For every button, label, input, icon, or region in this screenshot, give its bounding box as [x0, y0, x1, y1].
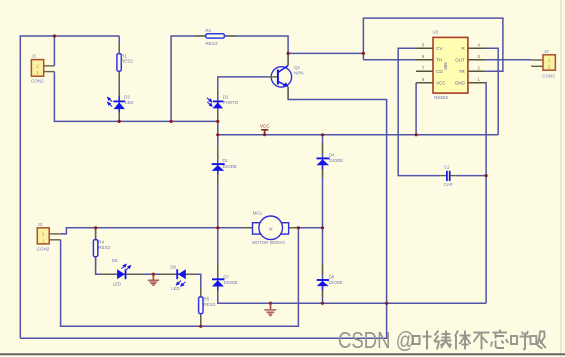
wire: VCC rail y=134.8 [218, 134, 498, 136]
svg-text:RES2: RES2 [121, 59, 133, 64]
LED D5 [101, 258, 142, 287]
wire: VCC pin riser [415, 83, 417, 135]
svg-text:D1: D1 [222, 158, 228, 163]
wire: collector to TH vertical y=53.4 [288, 52, 363, 54]
junction (54.4,36) [53, 34, 56, 37]
ground GND1 [148, 273, 159, 286]
wire: TH-TR top loop [363, 18, 503, 71]
svg-text:Q1: Q1 [294, 65, 300, 70]
svg-text:RES2: RES2 [206, 41, 218, 46]
diode D7 [212, 262, 238, 297]
svg-text:CON2: CON2 [31, 79, 44, 84]
svg-text:DIODE: DIODE [224, 280, 238, 285]
junction (95.6,227.8) [94, 226, 97, 229]
watermark hanzi 叶 [413, 331, 432, 350]
svg-text:CV: CV [436, 46, 442, 51]
connector J1 CON2 [31, 54, 54, 84]
junction (171.1,121.4) [170, 120, 173, 123]
svg-text:D6: D6 [170, 265, 176, 270]
watermark hanzi 忘 [491, 330, 508, 349]
svg-text:RES2: RES2 [203, 302, 215, 307]
wire: R1-D3 column [118, 36, 120, 121]
sheet right border [560, 0, 562, 357]
motor MG1 MOTOR SERVO [242, 211, 298, 245]
LED D6 [160, 265, 196, 292]
wire: motor rail y=227.8 [60, 228, 323, 234]
svg-text:D7: D7 [223, 275, 229, 280]
svg-text:NE555: NE555 [434, 95, 448, 100]
power VCC [260, 124, 270, 137]
svg-text:D4: D4 [329, 152, 335, 157]
wire: emitter run [20, 87, 386, 339]
junction (217.8,134.8) [216, 133, 219, 136]
wire: R4 column [96, 228, 201, 326]
IC U3 555 [416, 30, 485, 101]
watermark hanzi 不 [474, 333, 490, 350]
watermark hanzi 绿 [434, 331, 452, 350]
connector J2 CON2 [531, 49, 555, 78]
junction (217.8,227.8) [216, 226, 219, 229]
svg-text:J2: J2 [544, 49, 549, 54]
svg-text:VCC: VCC [260, 124, 270, 129]
wire: R pin to VCC rail [485, 48, 498, 135]
svg-text:D2: D2 [223, 95, 229, 100]
watermark hanzi 吸 [531, 332, 547, 349]
svg-text:CAP: CAP [444, 182, 453, 187]
wire: motor right drop and J3 loop [61, 228, 299, 326]
wire: C2 right to GND vertical [456, 175, 486, 177]
svg-text:NPN: NPN [294, 70, 303, 75]
junction (288.1,53.4) [287, 52, 290, 55]
junction (200.8,326.3) [199, 325, 202, 328]
junction (486.1,175.6) [485, 174, 488, 177]
svg-text:R5: R5 [203, 297, 209, 302]
junction (298.4,227.8) [297, 226, 300, 229]
svg-text:CSDN @: CSDN @ [338, 328, 415, 354]
svg-text:VCC: VCC [436, 81, 446, 86]
ground GND2 [264, 302, 276, 316]
wire: CV drop to C2 [398, 48, 440, 175]
wire: D4-D8 column [322, 135, 324, 303]
svg-text:LED: LED [125, 100, 134, 105]
svg-text:J3: J3 [38, 222, 43, 227]
svg-text:OUT: OUT [455, 58, 465, 63]
svg-text:U3: U3 [433, 30, 439, 35]
svg-text:LED: LED [113, 282, 122, 287]
junction (322.5,227.8) [321, 226, 324, 229]
svg-text:DIODE: DIODE [329, 280, 343, 285]
junction (416.1,134.8) [415, 133, 418, 136]
svg-text:C2: C2 [444, 165, 450, 170]
svg-text:TR: TR [459, 69, 466, 74]
svg-text:D8: D8 [329, 274, 335, 279]
diode D1 [212, 148, 237, 183]
svg-text:MG1: MG1 [253, 211, 263, 216]
wire: top-left rail y=36 [20, 36, 119, 338]
svg-text:R4: R4 [98, 239, 104, 244]
svg-text:CON2: CON2 [542, 73, 555, 78]
resistor R4 [93, 228, 110, 269]
resistor R1 [117, 43, 133, 82]
LED D3 [108, 85, 134, 121]
svg-text:DIODE: DIODE [329, 158, 343, 163]
svg-text:J1: J1 [32, 54, 37, 59]
diode D4 [317, 143, 344, 178]
svg-text:GND: GND [455, 81, 466, 86]
wire: base wire and photodiode chain [218, 77, 486, 303]
svg-text:MOTOR SERVO: MOTOR SERVO [252, 240, 285, 245]
svg-text:D5: D5 [112, 258, 118, 263]
junction (321.8,303.2) [321, 302, 324, 305]
svg-text:RES2: RES2 [98, 245, 110, 250]
junction (386.6,303.2) [385, 302, 388, 305]
wire: R2 left vertical [171, 36, 288, 121]
wire: J1 pin2 riser [53, 36, 55, 66]
photo diode D2 [207, 90, 239, 118]
transistor Q1 NPN [268, 53, 303, 99]
resistor R2 [195, 28, 236, 46]
sheet bottom border [0, 353, 565, 355]
svg-text:DIODE: DIODE [223, 164, 237, 169]
svg-text:PHOTO: PHOTO [223, 100, 239, 105]
wire: TH stub link y=59.8 [363, 59, 416, 61]
svg-text:LED: LED [171, 286, 180, 291]
watermark hanzi 体 [455, 331, 471, 350]
junction (217.8,121.4) [216, 120, 219, 123]
wire: GND pin drop [485, 83, 486, 303]
svg-text:555: 555 [443, 62, 448, 70]
diode D8 [317, 264, 343, 297]
svg-text:R2: R2 [206, 28, 212, 33]
connector J3 CON2 [37, 222, 61, 251]
capacitor C2 [440, 165, 456, 187]
junction (322.5,134.8) [321, 133, 324, 136]
svg-text:TH: TH [436, 58, 442, 63]
resistor R5 [199, 287, 216, 326]
svg-text:CON2: CON2 [37, 246, 50, 251]
watermark hanzi 呼 [511, 331, 531, 350]
wire: OUT to J2 [485, 59, 531, 61]
junction (119.2,121.4) [118, 120, 121, 123]
wire: J1 pin1 drop to rail y=121.4 [54, 72, 217, 122]
svg-text:M: M [269, 226, 273, 231]
junction (363.4,53.4) [362, 52, 365, 55]
